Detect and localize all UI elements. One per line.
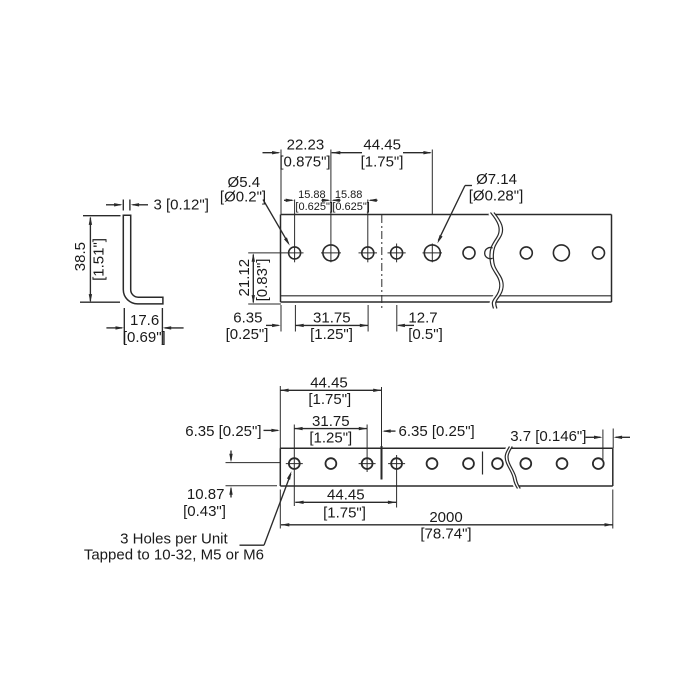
svg-text:22.23: 22.23 <box>287 137 325 154</box>
svg-text:[78.74"]: [78.74"] <box>420 525 471 542</box>
svg-text:6.35 [0.25"]: 6.35 [0.25"] <box>185 423 261 440</box>
svg-text:6.35 [0.25"]: 6.35 [0.25"] <box>399 423 475 440</box>
svg-text:3.7 [0.146"]: 3.7 [0.146"] <box>510 428 586 445</box>
svg-text:21.12: 21.12 <box>236 259 253 297</box>
svg-text:[1.75"]: [1.75"] <box>308 391 351 408</box>
svg-text:[0.875"]: [0.875"] <box>279 153 330 170</box>
svg-text:17.6: 17.6 <box>130 312 159 329</box>
svg-text:Ø7.14: Ø7.14 <box>476 171 517 188</box>
svg-text:Tapped to 10-32, M5 or M6: Tapped to 10-32, M5 or M6 <box>84 547 264 564</box>
svg-text:[Ø0.2"]: [Ø0.2"] <box>220 189 266 206</box>
svg-text:3 [0.12"]: 3 [0.12"] <box>154 196 209 213</box>
svg-text:[Ø0.28"]: [Ø0.28"] <box>469 188 524 205</box>
svg-text:[0.5"]: [0.5"] <box>408 326 443 343</box>
svg-text:[1.25"]: [1.25"] <box>309 429 352 446</box>
svg-text:[0.43"]: [0.43"] <box>183 503 226 520</box>
svg-text:44.45: 44.45 <box>327 487 365 504</box>
svg-text:[1.75"]: [1.75"] <box>361 153 404 170</box>
svg-text:12.7: 12.7 <box>408 310 437 327</box>
svg-text:2000: 2000 <box>429 509 462 526</box>
svg-text:[1.75"]: [1.75"] <box>323 505 366 522</box>
svg-text:[0.69"]: [0.69"] <box>123 329 166 346</box>
svg-text:[0.25"]: [0.25"] <box>226 326 269 343</box>
svg-text:38.5: 38.5 <box>72 242 89 271</box>
svg-text:6.35: 6.35 <box>233 310 262 327</box>
svg-text:[1.25"]: [1.25"] <box>310 326 353 343</box>
svg-text:31.75: 31.75 <box>313 310 351 327</box>
svg-text:[0.625"]: [0.625"] <box>332 201 370 213</box>
svg-text:44.45: 44.45 <box>363 137 401 154</box>
svg-text:15.88: 15.88 <box>335 189 363 201</box>
svg-text:[0.83"]: [0.83"] <box>254 259 271 302</box>
svg-text:[1.51"]: [1.51"] <box>91 238 108 281</box>
svg-text:10.87: 10.87 <box>187 486 225 503</box>
svg-text:[0.625"]: [0.625"] <box>295 201 333 213</box>
svg-text:15.88: 15.88 <box>298 189 326 201</box>
svg-text:44.45: 44.45 <box>310 375 348 392</box>
svg-text:3 Holes per Unit: 3 Holes per Unit <box>120 531 228 548</box>
svg-text:31.75: 31.75 <box>312 413 350 430</box>
